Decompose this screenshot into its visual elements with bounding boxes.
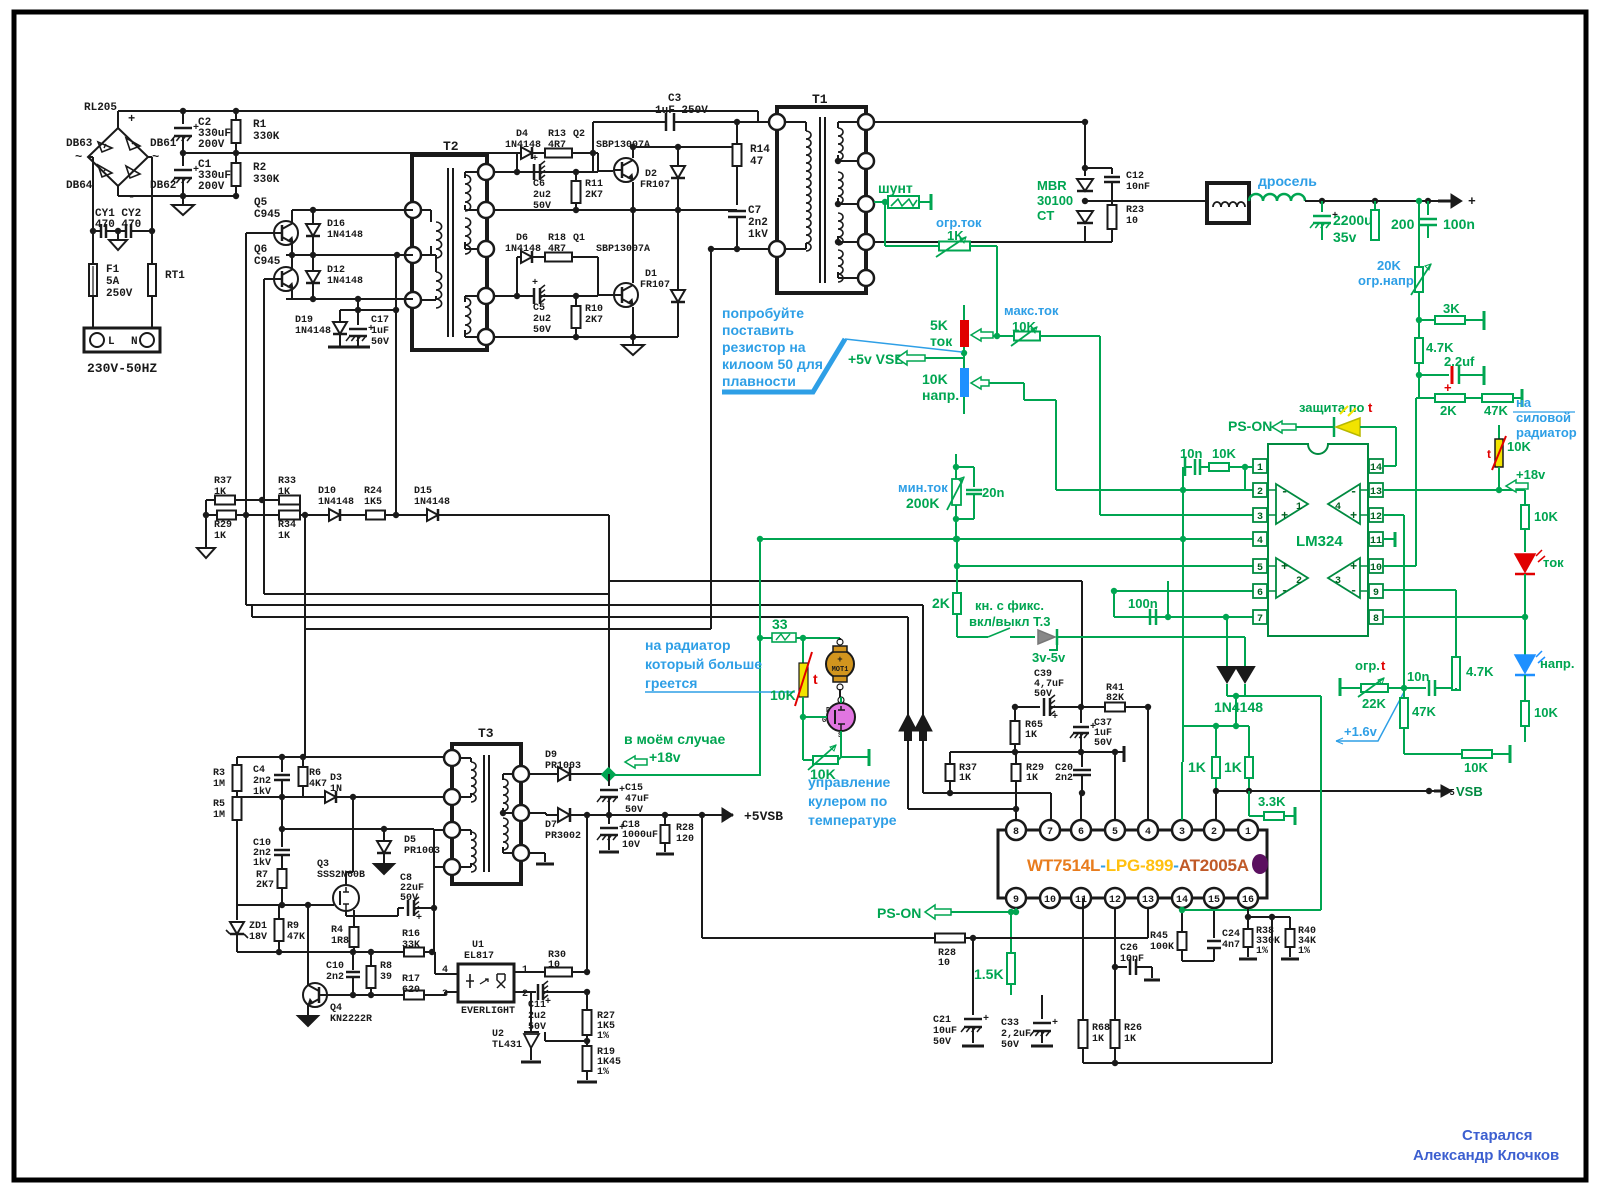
svg-text:поставить: поставить [722, 322, 794, 338]
svg-text:+: + [128, 112, 135, 126]
vertical x1082 to C39 node [1081, 581, 1083, 707]
LM324 pin 2 [1253, 483, 1267, 497]
svg-text:39: 39 [380, 972, 392, 983]
wire U1 pin2 [514, 991, 531, 993]
wire [1524, 574, 1526, 655]
T1 winding tap [835, 158, 841, 164]
T1 pin right 2 [858, 153, 874, 169]
vertical x1245 [1244, 467, 1246, 490]
svg-text:1kV: 1kV [748, 229, 768, 241]
vertical x1183 [1182, 467, 1184, 726]
svg-text:R34: R34 [278, 520, 296, 531]
svg-text:SBP13007A: SBP13007A [596, 244, 650, 255]
svg-text:30100: 30100 [1037, 193, 1073, 208]
svg-text:C17: C17 [371, 315, 389, 326]
svg-text:C7: C7 [748, 205, 761, 217]
T3 pin right 2 [513, 805, 529, 821]
wire Q3 gate row y905 [237, 904, 334, 906]
svg-text:2n2: 2n2 [1055, 773, 1073, 784]
svg-text:200V: 200V [198, 139, 225, 151]
svg-text:1%: 1% [1298, 946, 1310, 957]
wire HV bus top [123, 110, 758, 112]
resistor R45 [1181, 912, 1183, 932]
capacitor 20n [956, 466, 974, 468]
diode D10 [329, 509, 340, 521]
wire gate [803, 716, 827, 718]
svg-text:R11: R11 [585, 179, 603, 190]
capacitor CY1 [93, 230, 100, 232]
wire Q3 source [345, 910, 347, 916]
svg-text:8: 8 [1373, 614, 1379, 625]
svg-text:35v: 35v [1333, 229, 1357, 245]
node [180, 108, 186, 114]
capacitor C6 [517, 171, 534, 173]
node [1012, 704, 1018, 710]
resistor R29 [206, 514, 217, 516]
resistor R40 [1248, 916, 1290, 918]
svg-text:82K: 82K [1106, 693, 1124, 704]
svg-text:ZD1: ZD1 [249, 921, 267, 932]
svg-text:4K7: 4K7 [309, 779, 327, 790]
svg-text:33K: 33K [402, 940, 420, 951]
wire U1 pin3 [452, 991, 458, 993]
wire output bus [1085, 200, 1207, 202]
wire pin8 right [1383, 616, 1525, 618]
WT7514 pin 1 [1238, 820, 1258, 840]
wire HV mid [183, 152, 593, 154]
ground below CY [117, 231, 119, 240]
svg-text:1N4148: 1N4148 [327, 230, 363, 241]
svg-text:R14: R14 [750, 144, 770, 156]
WT7514 pin 9 [1006, 888, 1026, 908]
svg-text:1K: 1K [214, 531, 226, 542]
svg-text:20n: 20n [982, 485, 1004, 500]
LM324 pin 3 [1253, 508, 1267, 522]
resistor R24 [366, 511, 385, 520]
wire +18v rail [609, 774, 760, 776]
svg-text:16: 16 [1242, 895, 1254, 906]
diode D12 [306, 271, 320, 283]
vertical Q5 base column [245, 233, 247, 605]
resistor 1.5K [1008, 909, 1014, 915]
svg-text:11: 11 [1075, 895, 1087, 906]
svg-text:вкл/выкл Т.3: вкл/выкл Т.3 [969, 614, 1050, 629]
vertical x957 [956, 539, 958, 566]
svg-text:14: 14 [1176, 895, 1188, 906]
resistor R28b [935, 934, 965, 943]
svg-text:R10: R10 [585, 304, 603, 315]
svg-text:10: 10 [1126, 216, 1138, 227]
wire row y757 [237, 756, 444, 758]
svg-text:FR107: FR107 [640, 280, 670, 291]
T2 pin right 1 [478, 164, 494, 180]
svg-text:1K: 1K [1092, 1034, 1104, 1045]
svg-text:10K: 10K [1464, 760, 1488, 775]
svg-text:10n: 10n [1407, 669, 1429, 684]
T1 pin right 5 [858, 270, 874, 286]
drive arrow up left [899, 714, 917, 731]
node D15 [393, 512, 399, 518]
capacitor C33 [1041, 1005, 1043, 1019]
MOSFET Q3 [333, 885, 359, 911]
vertical x353 drain [352, 797, 354, 872]
svg-text:в моём случае: в моём случае [624, 731, 725, 747]
svg-text:плавности: плавности [722, 373, 796, 389]
svg-text:+: + [1052, 1018, 1058, 1029]
T3 pin left 3 [444, 822, 460, 838]
capacitor C4 [281, 757, 283, 772]
wire pin5 y566 [957, 565, 1253, 567]
capacitor 100n out [1427, 201, 1429, 215]
wire y122 to C3 [593, 121, 666, 123]
svg-text:10K: 10K [1534, 705, 1558, 720]
svg-text:2K7: 2K7 [585, 315, 603, 326]
svg-text:R33: R33 [278, 476, 296, 487]
wire y809 [908, 808, 1016, 810]
svg-text:SSS2N60B: SSS2N60B [317, 870, 365, 881]
capacitor 2200uf [1321, 201, 1323, 212]
transistor Q5 [274, 221, 298, 245]
wire Q6 emitter [291, 289, 293, 299]
wire y629 [305, 628, 711, 630]
svg-text:6: 6 [1257, 588, 1263, 599]
T3 pin left 4 [444, 859, 460, 875]
wire [1418, 292, 1420, 398]
svg-text:+: + [1444, 380, 1452, 395]
resistor R9 [278, 905, 280, 919]
WT7514 pin 16 [1238, 888, 1258, 908]
capacitor C15 [608, 780, 610, 786]
wire vsb to R30 col [586, 815, 588, 972]
svg-text:D2: D2 [645, 169, 657, 180]
IC U4 WT7514L [998, 830, 1267, 898]
arrow PS-ON top [1272, 421, 1296, 433]
diode D9 [529, 773, 558, 775]
svg-text:защита по: защита по [1299, 400, 1365, 415]
node +18v [601, 767, 617, 783]
svg-text:килоом 50 для: килоом 50 для [722, 356, 823, 372]
choke winding green [1249, 194, 1305, 201]
svg-text:7: 7 [1257, 614, 1263, 625]
transistor Q4 [303, 983, 327, 1007]
svg-text:1K5: 1K5 [364, 497, 382, 508]
svg-text:C4: C4 [253, 765, 265, 776]
vertical x908 arrow [907, 617, 909, 809]
svg-text:t: t [1487, 447, 1491, 461]
T1 pin left 2 [769, 241, 785, 257]
WT7514 pin 11 [1071, 888, 1091, 908]
wire Q2 emitter [632, 182, 634, 210]
svg-text:R24: R24 [364, 486, 382, 497]
svg-text:1R8: 1R8 [331, 936, 349, 947]
svg-text:100n: 100n [1443, 216, 1475, 232]
svg-text:WT7514L-LPG-899-AT2005A: WT7514L-LPG-899-AT2005A [1027, 856, 1249, 875]
svg-text:2: 2 [1257, 487, 1263, 498]
T2 pin right 2 [478, 202, 494, 218]
svg-text:2,2uF: 2,2uF [1001, 1029, 1031, 1040]
svg-text:N: N [131, 336, 138, 348]
diode MBR top [1077, 179, 1093, 191]
resistor R68 [1082, 898, 1084, 1020]
resistor 47K row [1482, 394, 1513, 402]
svg-text:4: 4 [1335, 502, 1341, 513]
vertical right x1272 [1271, 917, 1273, 1063]
svg-text:попробуйте: попробуйте [722, 305, 804, 321]
T3 pin left 2 [444, 789, 460, 805]
node [734, 119, 740, 125]
wire row y210 [494, 209, 737, 211]
WT7514 pin 7 [1040, 820, 1060, 840]
shunt reg U2 TL431 [530, 992, 532, 1018]
diode 1N4148 a [1226, 617, 1228, 667]
svg-text:EVERLIGHT: EVERLIGHT [461, 1006, 515, 1017]
svg-text:1K: 1K [1026, 773, 1038, 784]
wire Q1 base [597, 257, 599, 296]
svg-text:T2: T2 [443, 139, 459, 154]
resistor 1K b [1248, 726, 1250, 757]
wire D15 down [608, 515, 610, 581]
wire MBR bottom to T1 [874, 241, 1085, 243]
wire 1K rail up [1182, 726, 1184, 762]
wire row y797 [237, 796, 444, 798]
svg-text:+: + [532, 154, 538, 165]
svg-text:47K: 47K [1412, 704, 1436, 719]
svg-text:R16: R16 [402, 929, 420, 940]
svg-text:t: t [1381, 658, 1386, 673]
svg-text:R17: R17 [402, 974, 420, 985]
svg-text:C21: C21 [933, 1015, 951, 1026]
svg-text:10: 10 [548, 960, 560, 971]
trimmer 10K blue [960, 368, 969, 397]
wire y581 [609, 580, 1082, 582]
svg-text:R9: R9 [287, 921, 299, 932]
svg-text:13: 13 [1370, 487, 1382, 498]
svg-text:13: 13 [1142, 895, 1154, 906]
resistor R33 [279, 496, 300, 505]
WT7514 pin 15 [1204, 888, 1224, 908]
svg-text:T3: T3 [478, 726, 494, 741]
svg-text:10K: 10K [1534, 509, 1558, 524]
diode D5 [383, 829, 385, 841]
svg-text:1N4148: 1N4148 [414, 497, 450, 508]
AC terminal block [84, 328, 160, 352]
node [1319, 198, 1325, 204]
T2 pin left 1 [405, 202, 421, 218]
resistor R3 [236, 757, 238, 765]
svg-text:управление: управление [808, 774, 891, 790]
svg-text:4n7: 4n7 [1222, 940, 1240, 951]
svg-text:шунт: шунт [878, 180, 913, 196]
wire y605 [246, 604, 923, 606]
svg-text:кулером по: кулером по [808, 793, 887, 809]
wire pin9 to 4.7K [1382, 589, 1456, 591]
svg-text:10K: 10K [1507, 439, 1531, 454]
svg-text:D9: D9 [545, 750, 557, 761]
svg-text:250V: 250V [106, 288, 133, 300]
resistor 1K a [1215, 726, 1217, 757]
svg-text:на радиатор: на радиатор [645, 637, 731, 653]
svg-text:4: 4 [442, 965, 448, 976]
node [90, 228, 96, 234]
svg-text:LM324: LM324 [1296, 533, 1343, 550]
wire Q6 base [264, 278, 274, 280]
op-amp 4 [1328, 484, 1360, 524]
svg-text:7: 7 [1047, 827, 1053, 838]
ground below Q1 [632, 337, 634, 345]
svg-text:PS-ON: PS-ON [877, 905, 921, 921]
svg-text:2K: 2K [932, 595, 950, 611]
resistor R28c [664, 815, 666, 825]
resistor R38 [1247, 908, 1249, 929]
svg-text:MOT1: MOT1 [832, 666, 849, 674]
svg-text:4.7K: 4.7K [1426, 340, 1454, 355]
svg-text:200: 200 [1391, 216, 1415, 232]
capacitor C1 [182, 153, 184, 166]
svg-text:50V: 50V [1001, 1040, 1019, 1051]
svg-text:EL817: EL817 [464, 951, 494, 962]
WT7514 pin 5 [1105, 820, 1125, 840]
svg-text:200V: 200V [198, 181, 225, 193]
vertical x434 [433, 829, 435, 952]
svg-text:Q2: Q2 [573, 129, 585, 140]
node MBR out [1082, 198, 1088, 204]
LM324 pin 13 [1369, 483, 1383, 497]
svg-text:47uF: 47uF [625, 794, 649, 805]
svg-text:~: ~ [152, 150, 159, 164]
thermistor 10K fan [802, 638, 804, 663]
svg-text:50V: 50V [933, 1037, 951, 1048]
LM324 pin 9 [1369, 584, 1383, 598]
svg-text:4R7: 4R7 [548, 140, 566, 151]
resistor R23 [1108, 205, 1117, 229]
svg-text:11: 11 [1370, 536, 1382, 547]
svg-text:R23: R23 [1126, 205, 1144, 216]
svg-text:Q1: Q1 [573, 233, 585, 244]
svg-text:1: 1 [522, 965, 528, 976]
svg-text:2n2: 2n2 [326, 972, 344, 983]
WT7514 pin 13 [1138, 888, 1158, 908]
T2 pin right 5 [478, 329, 494, 345]
svg-text:F1: F1 [106, 264, 120, 276]
svg-text:D1: D1 [645, 269, 657, 280]
svg-text:L: L [108, 336, 115, 348]
wire Q1 emitter [632, 307, 634, 337]
arrow +5v VSB [897, 351, 925, 365]
svg-text:R18: R18 [548, 233, 566, 244]
svg-text:10V: 10V [622, 840, 640, 851]
resistor R10 [572, 306, 581, 328]
capacitor C26 [1115, 966, 1127, 968]
svg-text:1K: 1K [278, 531, 290, 542]
vertical x396 [395, 255, 397, 515]
svg-text:C6: C6 [533, 179, 545, 190]
LED yellow [1296, 426, 1334, 428]
svg-text:2n2: 2n2 [253, 776, 271, 787]
svg-text:R45: R45 [1150, 931, 1168, 942]
arrow +18v left [625, 756, 647, 768]
svg-text:1%: 1% [597, 1067, 609, 1078]
T3 pin left 1 [444, 750, 460, 766]
op-amp 3 [1328, 558, 1360, 598]
svg-text:8: 8 [1013, 827, 1019, 838]
svg-text:+1.6v: +1.6v [1344, 724, 1378, 739]
svg-text:C26: C26 [1120, 943, 1138, 954]
wire pin14 right [1383, 465, 1396, 467]
fuse F1 [92, 231, 94, 264]
wire ref [531, 1017, 587, 1019]
svg-text:50V: 50V [371, 337, 389, 348]
LM324 pin 12 [1369, 508, 1383, 522]
svg-text:D12: D12 [327, 265, 345, 276]
wire Q4 emitter [307, 1005, 309, 1016]
capacitor C18 [608, 815, 610, 824]
svg-text:мин.ток: мин.ток [898, 480, 948, 495]
wire pin2 drive [1215, 791, 1217, 820]
LM324 pin 14 [1369, 459, 1383, 473]
wire Q2 base [597, 153, 599, 172]
svg-text:10uF: 10uF [933, 1026, 957, 1037]
svg-text:1N4148: 1N4148 [1214, 699, 1263, 715]
svg-text:-: - [1281, 485, 1288, 499]
wire ogr to maks [970, 245, 997, 247]
T1 pin left 1 [769, 114, 785, 130]
svg-text:20K: 20K [1377, 258, 1401, 273]
svg-text:50V: 50V [533, 325, 551, 336]
svg-text:10n: 10n [1180, 446, 1202, 461]
wire pin13 down [1147, 908, 1149, 938]
LED red ток [1515, 554, 1535, 572]
resistor R41 [1081, 706, 1105, 708]
svg-text:C24: C24 [1222, 929, 1240, 940]
svg-text:47: 47 [750, 156, 763, 168]
svg-text:Q6: Q6 [254, 244, 267, 256]
transistor Q6 [274, 267, 298, 291]
motor MOT1 [826, 650, 854, 678]
T2 pin left 2 [405, 247, 421, 263]
svg-text:огр.: огр. [1355, 658, 1380, 673]
svg-text:1M: 1M [213, 779, 225, 790]
svg-text:+: + [837, 655, 842, 665]
diode D4 [494, 171, 517, 173]
wire T2 pin r1 to x593 [494, 171, 593, 173]
svg-text:кн. с фикс.: кн. с фикс. [975, 598, 1044, 613]
wire +18v rail y539 [760, 538, 1253, 540]
T3 pin right 1 [513, 766, 529, 782]
wire MBR mid tap [1085, 167, 1112, 169]
svg-text:47K: 47K [287, 932, 305, 943]
capacitor 10n right [1428, 680, 1431, 696]
pot огр.ток [882, 199, 888, 205]
svg-text:1kV: 1kV [253, 786, 271, 798]
resistor 47K vert [1403, 688, 1405, 698]
svg-text:10: 10 [1370, 563, 1382, 574]
svg-text:22K: 22K [1362, 696, 1386, 711]
svg-text:4: 4 [1145, 827, 1151, 838]
resistor 4.7K right2 [1455, 656, 1457, 658]
vertical x609 down to +18v node [608, 594, 610, 769]
wire TL431 ref [539, 1040, 560, 1042]
svg-text:9: 9 [1373, 588, 1379, 599]
svg-text:50V: 50V [1034, 689, 1052, 700]
wire pin10 right [1383, 565, 1416, 567]
svg-text:C15: C15 [625, 783, 643, 794]
capacitor C8 [354, 915, 398, 917]
wire pin6 up [1080, 793, 1082, 820]
diode MBR bottom [1077, 211, 1093, 223]
wire y752 [950, 751, 1116, 753]
svg-text:1kV: 1kV [253, 857, 271, 869]
svg-text:2u2: 2u2 [533, 190, 551, 201]
